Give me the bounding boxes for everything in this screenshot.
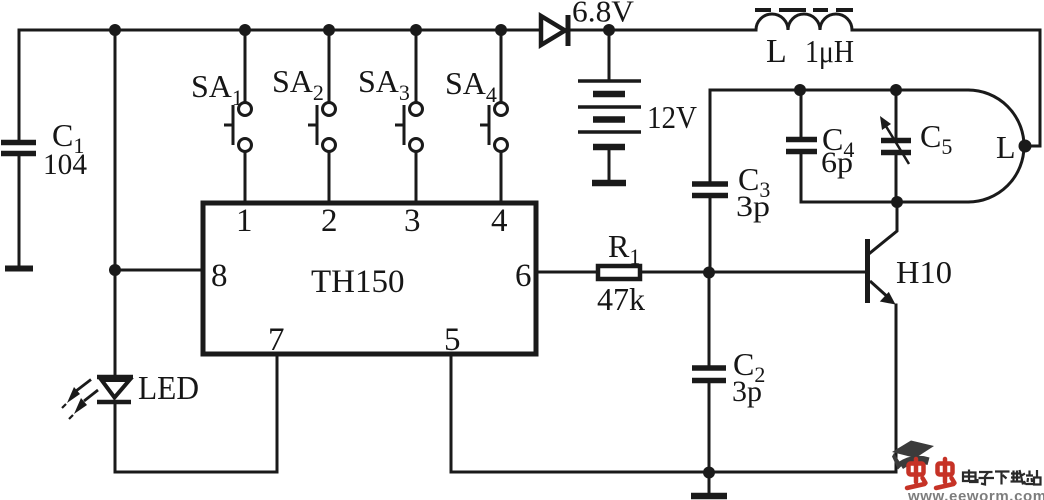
svg-text:TH150: TH150 [311,264,405,300]
node R1 C3 C2 base [703,267,715,279]
switch SA3 [358,30,423,203]
svg-text:SA1: SA1 [191,68,243,110]
switch SA4 [445,30,508,203]
node battery top [603,24,615,36]
node top rail SA1 [239,24,251,36]
svg-text:R1: R1 [608,228,640,269]
capacitor C5 variable [880,90,952,202]
wire top rail left [19,29,539,32]
svg-text:www.eeworm.com: www.eeworm.com [907,488,1044,500]
node top rail SA2 [323,24,335,36]
svg-text:C5: C5 [920,118,952,159]
svg-text:LED: LED [138,370,199,407]
svg-text:L: L [996,129,1016,165]
svg-text:6.8V: 6.8V [572,0,635,29]
wire pin 5 to bottom [451,354,709,472]
node L antenna terminal [1019,140,1032,153]
svg-text:SA2: SA2 [272,63,324,105]
wire diode to inductor [568,29,756,32]
svg-text:4: 4 [491,203,508,239]
LED [62,370,199,419]
diode VD 6.8V [541,0,635,46]
node top rail SA3 [410,24,422,36]
wire left branch vertical [114,30,117,270]
capacitor C3 3p [692,90,770,272]
wire node to pin 8 [115,269,203,272]
svg-text:8: 8 [211,258,228,294]
wire node down to LED [114,270,117,377]
switch SA1 [191,30,252,203]
capacitor C1 104 [1,30,87,269]
svg-text:6: 6 [515,258,532,294]
node bottom ground [703,467,715,479]
svg-text:SA3: SA3 [358,63,410,105]
node top rail x115 [109,24,121,36]
switch SA2 [272,30,336,203]
op-amp U1 TH150 box [203,203,536,354]
resistor R1 47k [597,228,645,317]
loop antenna L [710,90,1024,202]
wire pin 6 to R1 [536,271,596,274]
node tank top C4 [794,84,806,96]
watermark chongchong red [907,459,955,488]
svg-text:6p: 6p [821,146,853,179]
svg-text:H10: H10 [896,254,952,290]
svg-text:2: 2 [321,203,338,239]
svg-text:104: 104 [43,148,87,181]
ground [691,472,727,496]
capacitor C2 3p [692,273,765,472]
node tank bottom [891,196,903,208]
svg-text:3: 3 [404,203,421,239]
svg-text:3p: 3p [732,375,762,408]
svg-text:L: L [766,33,787,70]
svg-text:1: 1 [236,203,253,239]
watermark logo cap [892,441,934,470]
wire bottom node to emitter [709,471,896,474]
wire LED to pin 7 [115,354,277,472]
node pin8 branch [109,264,121,276]
transistor Q1 H10 [868,202,953,472]
wire inductor to top-right corner [852,30,1040,146]
wire node to transistor base [709,271,865,274]
svg-text:47k: 47k [597,281,645,317]
svg-text:12V: 12V [647,99,697,135]
node tank top C5 [890,84,902,96]
capacitor C4 6p [786,90,854,202]
node top rail SA4 [495,24,507,36]
svg-text:3p: 3p [736,190,770,223]
svg-text:7: 7 [268,322,285,358]
wire R1 to node [642,271,709,274]
svg-text:SA4: SA4 [445,65,497,107]
inductor L 1uH [755,10,854,70]
svg-text:1μH: 1μH [805,33,854,69]
battery GB 12V [578,30,697,183]
watermark dianzi xiazaizhan [963,470,1041,485]
